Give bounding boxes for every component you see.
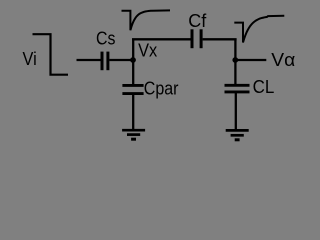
svg-text:Cf: Cf (188, 11, 207, 31)
svg-text:Vx: Vx (138, 40, 157, 60)
waveform sketch at Vα (234, 16, 284, 43)
capacitor CL (225, 85, 250, 92)
wire node to output label (235, 59, 266, 61)
ground (left) (122, 130, 145, 139)
wire top rail left (Vx to Cf) (132, 38, 191, 40)
capacitor Cf (192, 29, 201, 48)
capacitor Cs (102, 52, 108, 71)
svg-text:Cs: Cs (96, 28, 115, 48)
svg-text:Vα: Vα (271, 50, 295, 70)
capacitor Cpar (122, 85, 143, 93)
waveform sketch at Vx (122, 10, 171, 30)
wire Vi to Cs (77, 59, 101, 61)
wire Vx column vertical (rail to Cpar) (132, 39, 134, 85)
wire output column vertical (rail to CL) (234, 39, 236, 85)
svg-text:Vi: Vi (23, 49, 37, 69)
node Vx junction dot (130, 57, 136, 63)
ground (right) (226, 130, 249, 139)
wire CL to ground (235, 93, 237, 130)
node Vo junction dot (232, 57, 238, 63)
wire top rail right (Cf to output column) (203, 38, 237, 40)
wire Cpar to ground (132, 95, 134, 130)
svg-text:CL: CL (253, 77, 275, 97)
input step waveform symbol (33, 34, 69, 74)
svg-text:Cpar: Cpar (144, 79, 179, 99)
wire Cs to node Vx (109, 59, 133, 61)
